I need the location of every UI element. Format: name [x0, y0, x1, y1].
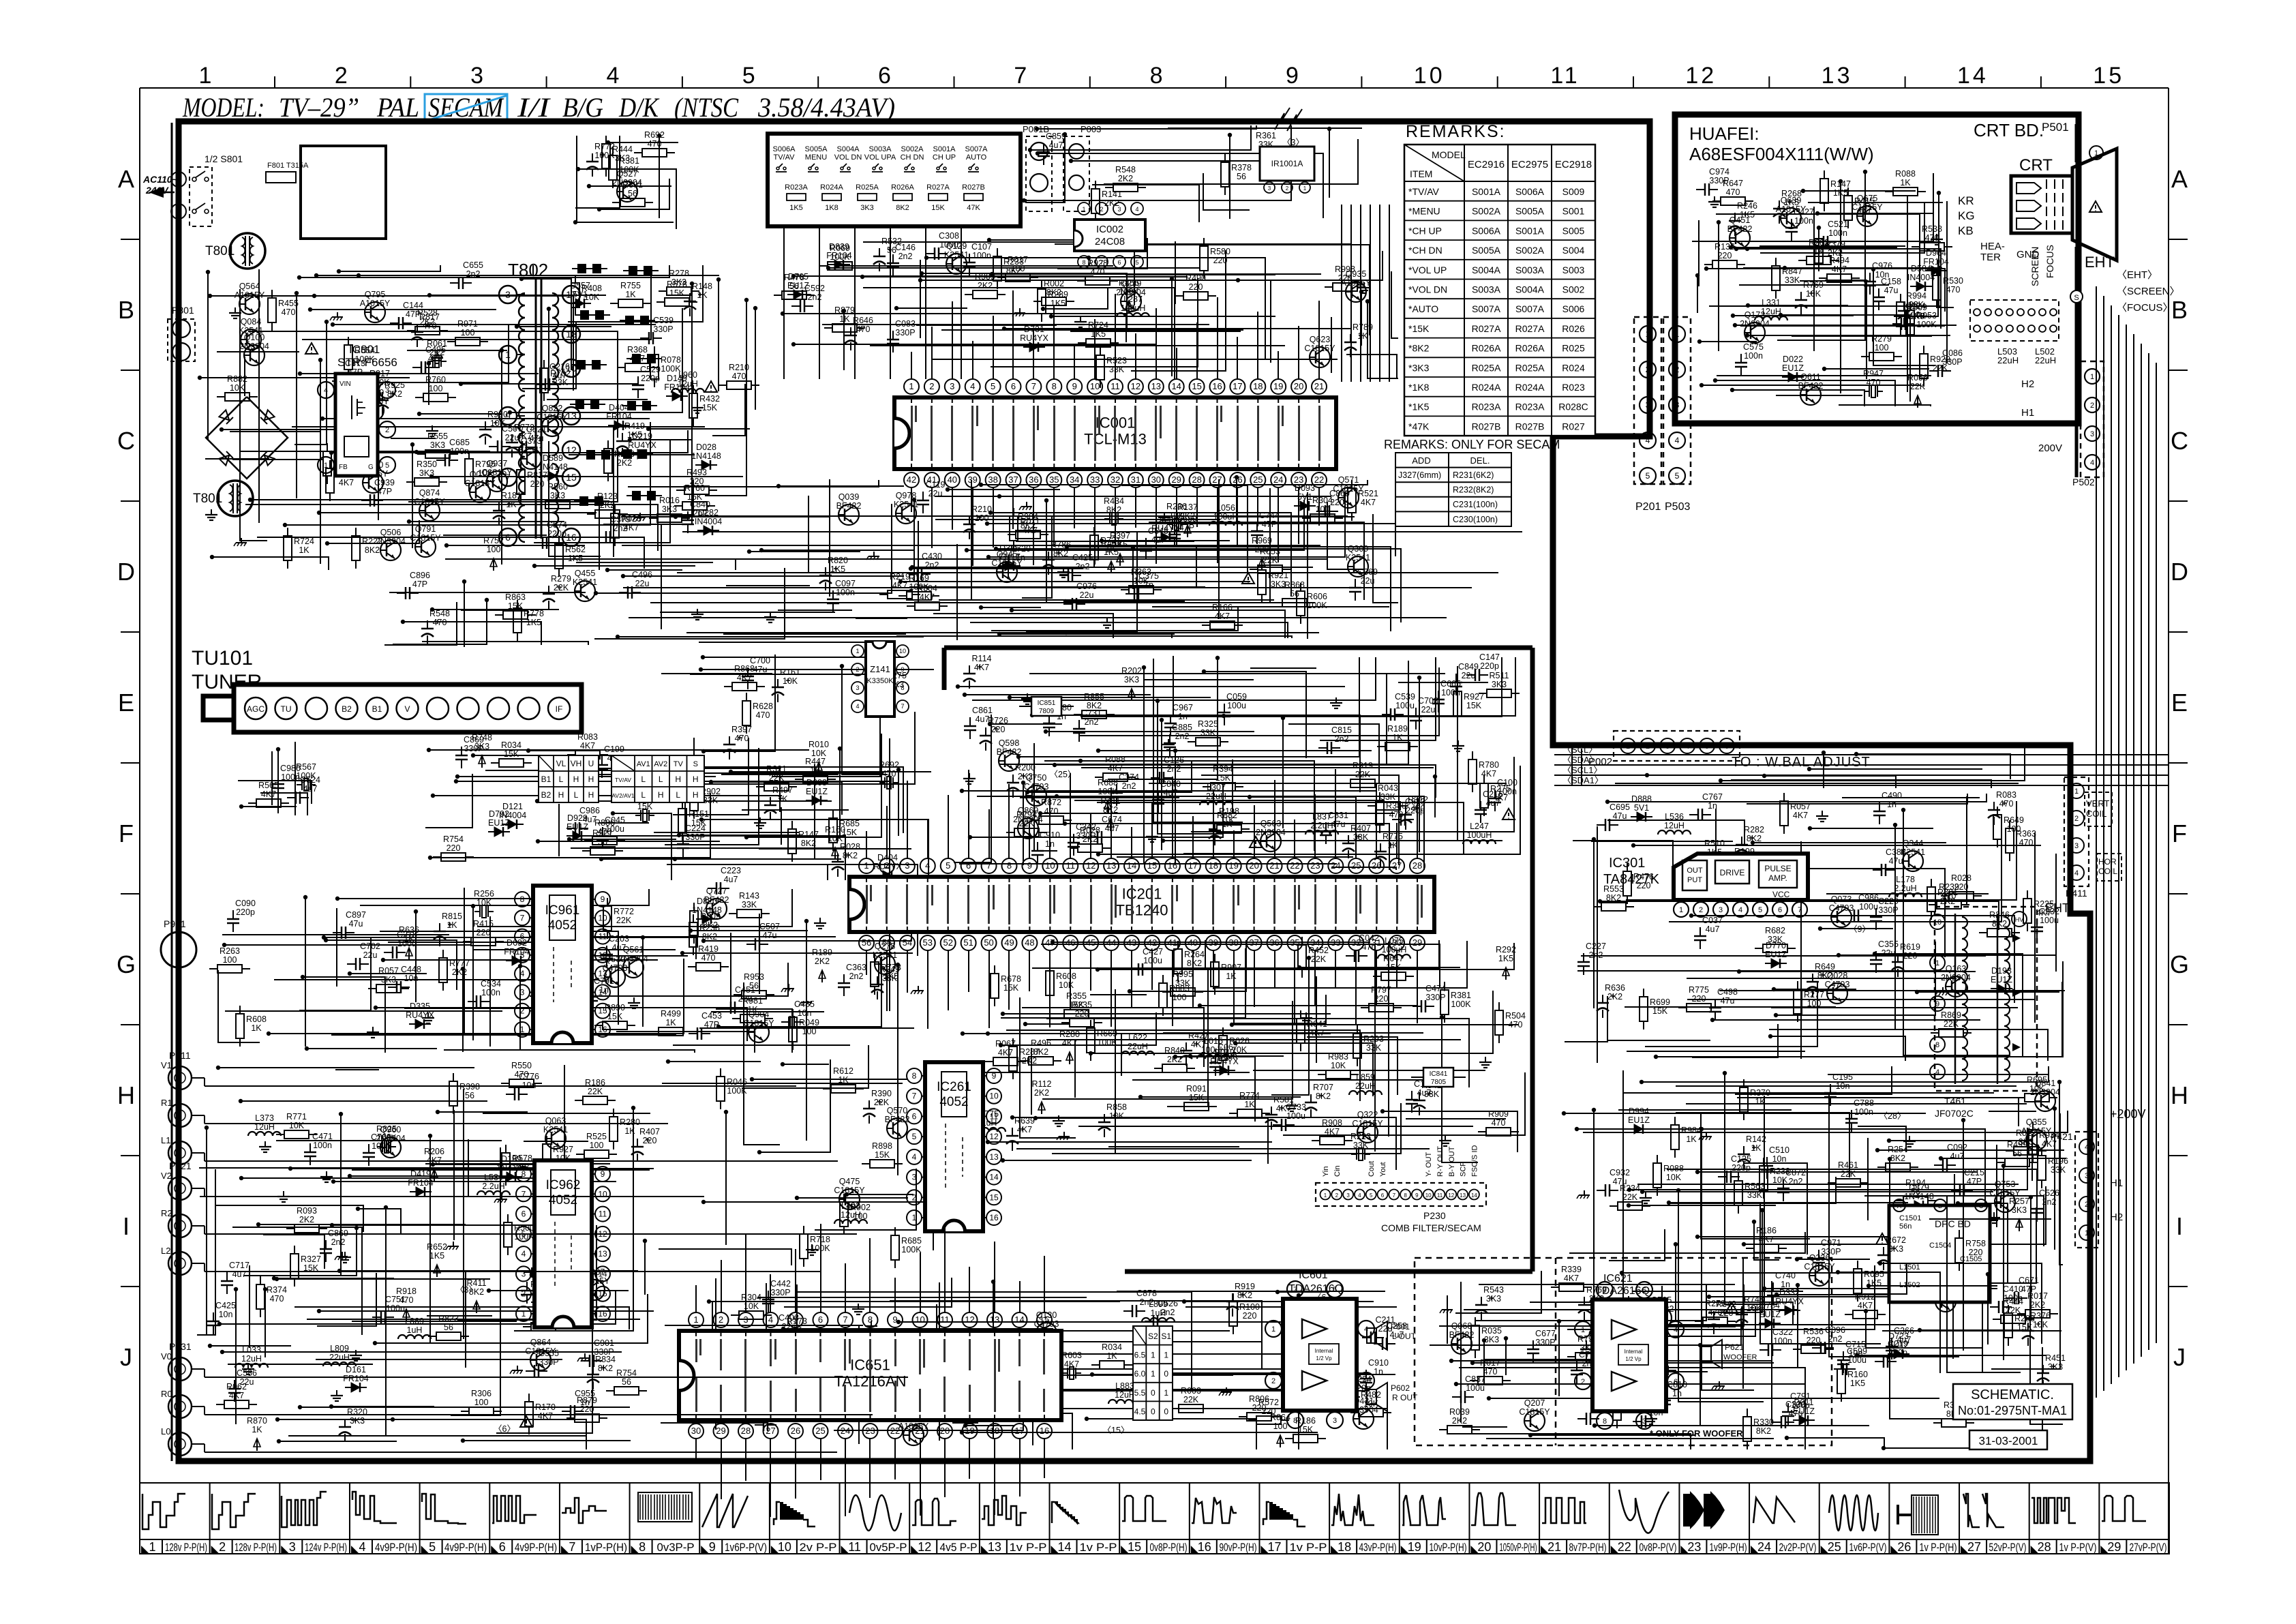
wire [1828, 1074, 2049, 1075]
svg-text:100n: 100n [972, 251, 991, 260]
svg-text:100: 100 [487, 545, 501, 554]
svg-text:0: 0 [1164, 1369, 1168, 1379]
svg-text:43: 43 [1127, 937, 1136, 948]
resistor R147 [1820, 170, 1851, 211]
svg-text:24: 24 [1331, 860, 1340, 871]
svg-text:C539: C539 [1395, 692, 1415, 702]
junction [791, 342, 796, 346]
resistor R572 [1248, 1398, 1289, 1424]
svg-text:56: 56 [1290, 589, 1299, 599]
capacitor C451 [722, 985, 755, 1014]
svg-text:19: 19 [1273, 381, 1283, 391]
svg-text:7809: 7809 [1039, 708, 1055, 715]
capacitor C158 [1873, 277, 1901, 310]
svg-text:R493: R493 [686, 468, 707, 477]
svg-text:330P: 330P [1709, 176, 1729, 185]
svg-text:C1815Y: C1815Y [414, 497, 445, 507]
svg-text:330P: 330P [539, 1357, 558, 1367]
wire [623, 575, 904, 577]
svg-text:3K3: 3K3 [860, 204, 874, 212]
svg-text:2K2: 2K2 [429, 348, 444, 357]
resistor R199 [1724, 847, 1765, 873]
supply arrow R636 [399, 925, 419, 960]
junction [924, 256, 928, 260]
wire [456, 781, 667, 782]
svg-text:4K7: 4K7 [624, 523, 639, 532]
wire [1817, 213, 1933, 214]
capacitor C763 [363, 1132, 391, 1166]
svg-text:L: L [641, 775, 646, 784]
resistor R017 [1470, 1358, 1511, 1385]
wire [489, 916, 491, 1047]
capacitor C849 [1450, 662, 1479, 695]
svg-text:R202: R202 [1121, 666, 1142, 676]
junction [401, 620, 405, 624]
svg-text:*AUTO: *AUTO [1408, 303, 1438, 314]
svg-text:R026A: R026A [1515, 343, 1545, 354]
svg-text:R379: R379 [1825, 239, 1845, 249]
inductor L178 [1889, 875, 1922, 897]
wire [200, 377, 410, 378]
capacitor C507 [746, 922, 780, 950]
capacitor C375 [1126, 571, 1159, 600]
wire [935, 519, 1220, 520]
svg-text:R682: R682 [1765, 926, 1785, 935]
wire [1163, 840, 1502, 841]
wire [429, 749, 809, 751]
wire [596, 504, 892, 593]
capacitor R817 [411, 312, 440, 347]
svg-text:VOL DN: VOL DN [834, 153, 862, 162]
svg-text:15K: 15K [1652, 1006, 1668, 1016]
svg-text:31-03-2001: 31-03-2001 [1979, 1434, 2038, 1447]
svg-text:8K2: 8K2 [1187, 959, 1202, 968]
wire [263, 1235, 324, 1269]
svg-text:TU: TU [281, 704, 292, 714]
svg-text:4u7: 4u7 [724, 875, 738, 884]
junction [689, 929, 693, 933]
svg-text:C869: C869 [464, 735, 484, 745]
ground [320, 1171, 333, 1182]
transistor Q118 [1933, 1279, 1959, 1312]
junction [487, 1289, 491, 1293]
svg-text:5: 5 [912, 1132, 917, 1141]
junction [1742, 1242, 1746, 1246]
svg-text:SCP: SCP [1460, 1161, 1468, 1177]
svg-text:I/I: I/I [517, 92, 551, 123]
svg-text:P931: P931 [169, 1341, 192, 1352]
svg-text:52vP-P(V): 52vP-P(V) [1989, 1542, 2027, 1554]
wire [1022, 1008, 1204, 1067]
svg-text:4: 4 [912, 1152, 917, 1162]
svg-text:S007A: S007A [1515, 303, 1545, 314]
supply arrow R752 [483, 536, 504, 571]
transistor Q129 [944, 241, 969, 274]
svg-text:22: 22 [1314, 475, 1324, 485]
resistor R381 [609, 147, 639, 188]
diode D557 [569, 281, 591, 308]
resistor R233 [993, 248, 1024, 289]
secondary rectifier diodes D830-D834 [572, 264, 607, 273]
svg-text:R752: R752 [483, 536, 504, 545]
junction [1733, 323, 1737, 327]
resistor R043 [1368, 783, 1408, 810]
crystal R947 [1863, 369, 1884, 397]
junction [666, 1059, 670, 1064]
svg-text:R023: R023 [1562, 382, 1585, 393]
capacitor R268 [1773, 189, 1802, 224]
resistor R235 [1061, 1000, 1102, 1027]
junction [276, 747, 280, 751]
svg-text:2N3904: 2N3904 [1116, 288, 1146, 297]
svg-text:R636: R636 [399, 925, 419, 935]
resistor R538 [1912, 224, 1952, 251]
svg-text:TV–29”: TV–29” [279, 92, 359, 123]
svg-text:A1015Y: A1015Y [2021, 1126, 2052, 1136]
svg-text:Q623: Q623 [1310, 335, 1331, 344]
wire [746, 734, 881, 837]
svg-text:4: 4 [768, 1314, 773, 1325]
svg-text:14: 14 [1014, 1314, 1024, 1325]
svg-text:R088: R088 [1105, 755, 1126, 764]
capacitor R397 [723, 725, 752, 760]
wire [618, 480, 693, 515]
wire [1203, 173, 1250, 210]
wire [955, 1341, 1263, 1342]
svg-text:22K: 22K [554, 583, 569, 592]
empty reference square [301, 146, 386, 239]
resistor R921 [582, 828, 623, 855]
svg-text:7: 7 [901, 703, 904, 710]
resistor R628 [742, 693, 773, 734]
svg-text:1v6P-P(V): 1v6P-P(V) [725, 1542, 767, 1554]
svg-text:IC962: IC962 [546, 1178, 581, 1192]
svg-text:Q978: Q978 [896, 491, 917, 500]
wire [955, 1072, 1250, 1073]
junction [744, 835, 749, 839]
svg-text:EU1Z: EU1Z [1782, 363, 1804, 373]
ground [865, 1321, 877, 1332]
transistor Q574 [898, 1413, 929, 1445]
resistor R304 [1302, 496, 1343, 522]
junction [1022, 198, 1026, 202]
junction [337, 1269, 342, 1273]
svg-text:470: 470 [1999, 799, 2014, 809]
capacitor R834 [587, 1355, 616, 1389]
svg-text:C974: C974 [1709, 167, 1729, 177]
junction [198, 376, 202, 380]
svg-text:Q207: Q207 [1524, 1398, 1545, 1408]
svg-text:R148: R148 [692, 282, 712, 291]
wire [1753, 842, 1946, 843]
wire pin stub [1318, 301, 1320, 379]
svg-text:L: L [676, 790, 680, 800]
svg-text:C539: C539 [653, 316, 674, 325]
wire [1131, 760, 1233, 813]
row tick right [2169, 1155, 2188, 1156]
inductor L536 [1658, 812, 1691, 834]
CRT funnel [2072, 149, 2117, 260]
svg-text:TU101: TU101 [192, 647, 253, 670]
wire [350, 973, 427, 974]
resistor R510 [1694, 839, 1735, 865]
wire [433, 795, 782, 796]
svg-text:IC961: IC961 [545, 903, 580, 918]
svg-text:J: J [2173, 1343, 2186, 1371]
wire [856, 618, 907, 619]
junction [611, 811, 615, 815]
svg-text:D: D [2171, 558, 2188, 586]
svg-text:R563: R563 [1744, 1182, 1765, 1191]
resistor R379 [1815, 230, 1845, 271]
inner video section thick border top [944, 646, 1532, 650]
wire [244, 357, 245, 396]
wire [1074, 800, 1378, 801]
resistor R264 [1174, 941, 1205, 982]
transistor Q063 [543, 1116, 568, 1149]
junction [428, 856, 432, 860]
svg-text:330P: 330P [464, 744, 483, 753]
wire pin stub [1217, 487, 1218, 563]
wire [299, 937, 371, 1010]
junction [1837, 953, 1841, 957]
svg-text:R758: R758 [1965, 1239, 1986, 1248]
svg-text:AV2/AV1: AV2/AV1 [611, 792, 635, 799]
row tick left [121, 1155, 140, 1156]
svg-text:R277: R277 [1804, 990, 1824, 999]
supply arrow R870 [247, 1416, 267, 1451]
wire [1235, 1043, 1373, 1096]
svg-text:47P: 47P [412, 580, 427, 589]
svg-text:R010: R010 [809, 740, 829, 749]
wire [350, 1175, 514, 1177]
wire [1464, 1309, 1798, 1310]
svg-text:MENU: MENU [805, 153, 827, 162]
capacitor C861 [964, 706, 993, 739]
wire [783, 314, 1126, 342]
svg-text:P981: P981 [164, 918, 186, 929]
wire [988, 1141, 1272, 1143]
transistor Q414 [560, 930, 590, 963]
svg-text:470: 470 [648, 139, 662, 149]
svg-text:A1015Y: A1015Y [235, 290, 265, 300]
svg-text:5: 5 [520, 950, 525, 960]
wire [1770, 1036, 1905, 1061]
svg-text:R2: R2 [161, 1208, 172, 1218]
wire [1298, 1295, 1299, 1449]
resistor R034 [1091, 1342, 1132, 1369]
wire [1687, 999, 2034, 1000]
resistor R046 [716, 1068, 747, 1109]
svg-text:C203: C203 [609, 934, 629, 944]
wire [429, 1136, 431, 1344]
junction [1049, 314, 1053, 318]
wire [1053, 942, 1370, 943]
svg-text:15: 15 [1128, 1540, 1141, 1554]
resistor R370 [1740, 1079, 1770, 1120]
svg-text:H: H [558, 790, 564, 800]
capacitor C322 [1759, 1327, 1793, 1356]
svg-text:〈3〉: 〈3〉 [455, 1285, 477, 1295]
svg-text:4K7: 4K7 [1759, 1235, 1774, 1244]
wire [228, 1364, 373, 1365]
resistor R909 [1478, 1109, 1519, 1136]
svg-text:R863: R863 [505, 592, 526, 602]
svg-text:90vP-P(H): 90vP-P(H) [1220, 1542, 1257, 1554]
wire [1719, 990, 2065, 991]
wire [1046, 940, 1439, 968]
svg-text:C096: C096 [1825, 1325, 1845, 1335]
wire [265, 1289, 266, 1357]
wire [218, 970, 260, 1042]
junction [845, 1192, 849, 1197]
capacitor C203 [601, 934, 629, 967]
wire [200, 1139, 468, 1197]
svg-text:R815: R815 [442, 912, 462, 921]
row tick left [121, 500, 140, 502]
junction [1689, 914, 1693, 918]
svg-text:〈25〉: 〈25〉 [1050, 770, 1076, 779]
wire [1016, 541, 1194, 542]
wire [1573, 841, 1673, 899]
transistor Q978 [894, 491, 918, 524]
resistor R275 [1480, 775, 1511, 816]
svg-text:R580: R580 [1210, 247, 1230, 256]
wire pin stub [1074, 487, 1075, 528]
junction [1380, 1109, 1385, 1113]
junction [1035, 127, 1039, 131]
capacitor C427 [1785, 207, 1814, 241]
svg-text:220: 220 [991, 725, 1006, 734]
junction [1768, 1034, 1772, 1038]
wire [569, 839, 676, 840]
inductor L775 [973, 1109, 1006, 1132]
wire [389, 592, 586, 593]
svg-text:C897: C897 [346, 910, 366, 920]
wire [1046, 500, 1047, 603]
junction [1078, 759, 1083, 763]
resistor R374 [256, 1276, 287, 1317]
svg-text:C526: C526 [2039, 1188, 2059, 1198]
svg-text:220: 220 [1692, 994, 1706, 1004]
junction [1454, 1382, 1458, 1386]
svg-text:R419: R419 [698, 944, 719, 954]
resistor R108 [1613, 1387, 1644, 1428]
svg-text:R027A: R027A [1515, 323, 1545, 334]
svg-text:C342: C342 [1076, 822, 1096, 832]
svg-text:220p: 220p [236, 907, 255, 917]
junction [288, 1167, 292, 1171]
junction [1627, 1188, 1631, 1192]
wire [599, 179, 669, 209]
svg-text:4: 4 [856, 703, 859, 710]
svg-text:C045: C045 [605, 815, 625, 825]
resistor R606 [1297, 583, 1327, 624]
row tick left [121, 1286, 140, 1287]
svg-text:1050vP-P(H): 1050vP-P(H) [1500, 1542, 1537, 1554]
svg-text:100uH: 100uH [1467, 830, 1492, 840]
resistor R169 [898, 573, 939, 600]
CRT socket connector [1970, 300, 2059, 341]
svg-text:2n2: 2n2 [1828, 1334, 1843, 1344]
wire [1020, 797, 1179, 798]
wire [1117, 1291, 1385, 1292]
wire [759, 914, 760, 994]
svg-text:100u: 100u [2040, 916, 2059, 925]
junction [1695, 1170, 1700, 1174]
capacitor C396 [1577, 1396, 1611, 1425]
svg-text:R-Y OUT: R-Y OUT [1436, 1146, 1445, 1177]
junction [1676, 1188, 1680, 1192]
capacitor C219 [1875, 1339, 1908, 1368]
wire [1406, 1118, 1506, 1119]
capacitor C874 [534, 520, 567, 549]
junction [1655, 1370, 1659, 1374]
wire [1388, 942, 1389, 1137]
svg-text:100K: 100K [901, 1245, 922, 1254]
svg-text:13: 13 [989, 1152, 999, 1162]
svg-text:R279: R279 [551, 574, 571, 584]
wire [422, 642, 588, 645]
svg-text:100: 100 [1807, 999, 1822, 1008]
junction [518, 964, 522, 968]
capacitor C971 [1813, 1238, 1841, 1272]
wire [819, 226, 820, 379]
resistor R695 [2016, 1075, 2057, 1102]
capacitor C498 [1709, 987, 1738, 1021]
svg-text:Q570: Q570 [887, 1106, 908, 1115]
svg-text:R028C: R028C [1558, 402, 1588, 412]
svg-text:33K: 33K [1747, 1190, 1763, 1200]
transistor Q527 [612, 169, 642, 202]
svg-text:R434: R434 [1104, 496, 1124, 506]
wire [1447, 1295, 1448, 1344]
svg-text:4K7: 4K7 [1793, 811, 1808, 820]
wire [613, 425, 614, 557]
capacitor C495 [412, 345, 446, 374]
warning triangle [705, 381, 717, 392]
wire pin stub [927, 820, 928, 858]
resistor R482 [1350, 1390, 1391, 1417]
svg-text:C685: C685 [449, 438, 470, 447]
junction [1783, 266, 1787, 270]
svg-text:C507: C507 [759, 922, 780, 931]
svg-text:C788: C788 [1854, 1098, 1874, 1108]
svg-text:4K7: 4K7 [737, 673, 752, 682]
svg-text:2n2: 2n2 [2042, 1197, 2057, 1207]
svg-text:32: 32 [1111, 475, 1120, 485]
row tick right [2169, 370, 2188, 371]
svg-text:R095: R095 [1864, 1269, 1884, 1279]
ground [963, 773, 976, 784]
inductor L960 [671, 370, 704, 393]
capacitor C840 [1152, 779, 1181, 813]
svg-text:S007A: S007A [1472, 303, 1501, 314]
capacitor C780 [1043, 703, 1072, 736]
junction [1040, 1389, 1044, 1393]
svg-text:47u: 47u [1331, 819, 1346, 829]
svg-text:100: 100 [1875, 343, 1889, 352]
wire [863, 288, 1175, 379]
wire [1161, 720, 1162, 850]
svg-text:4K7: 4K7 [1493, 793, 1508, 802]
wire [686, 772, 883, 774]
svg-text:S005A: S005A [1472, 245, 1501, 256]
wire [241, 1177, 567, 1179]
wire [1004, 328, 1352, 329]
transistor Q073 [1829, 894, 1854, 927]
svg-text:EHT: EHT [2045, 901, 2070, 915]
